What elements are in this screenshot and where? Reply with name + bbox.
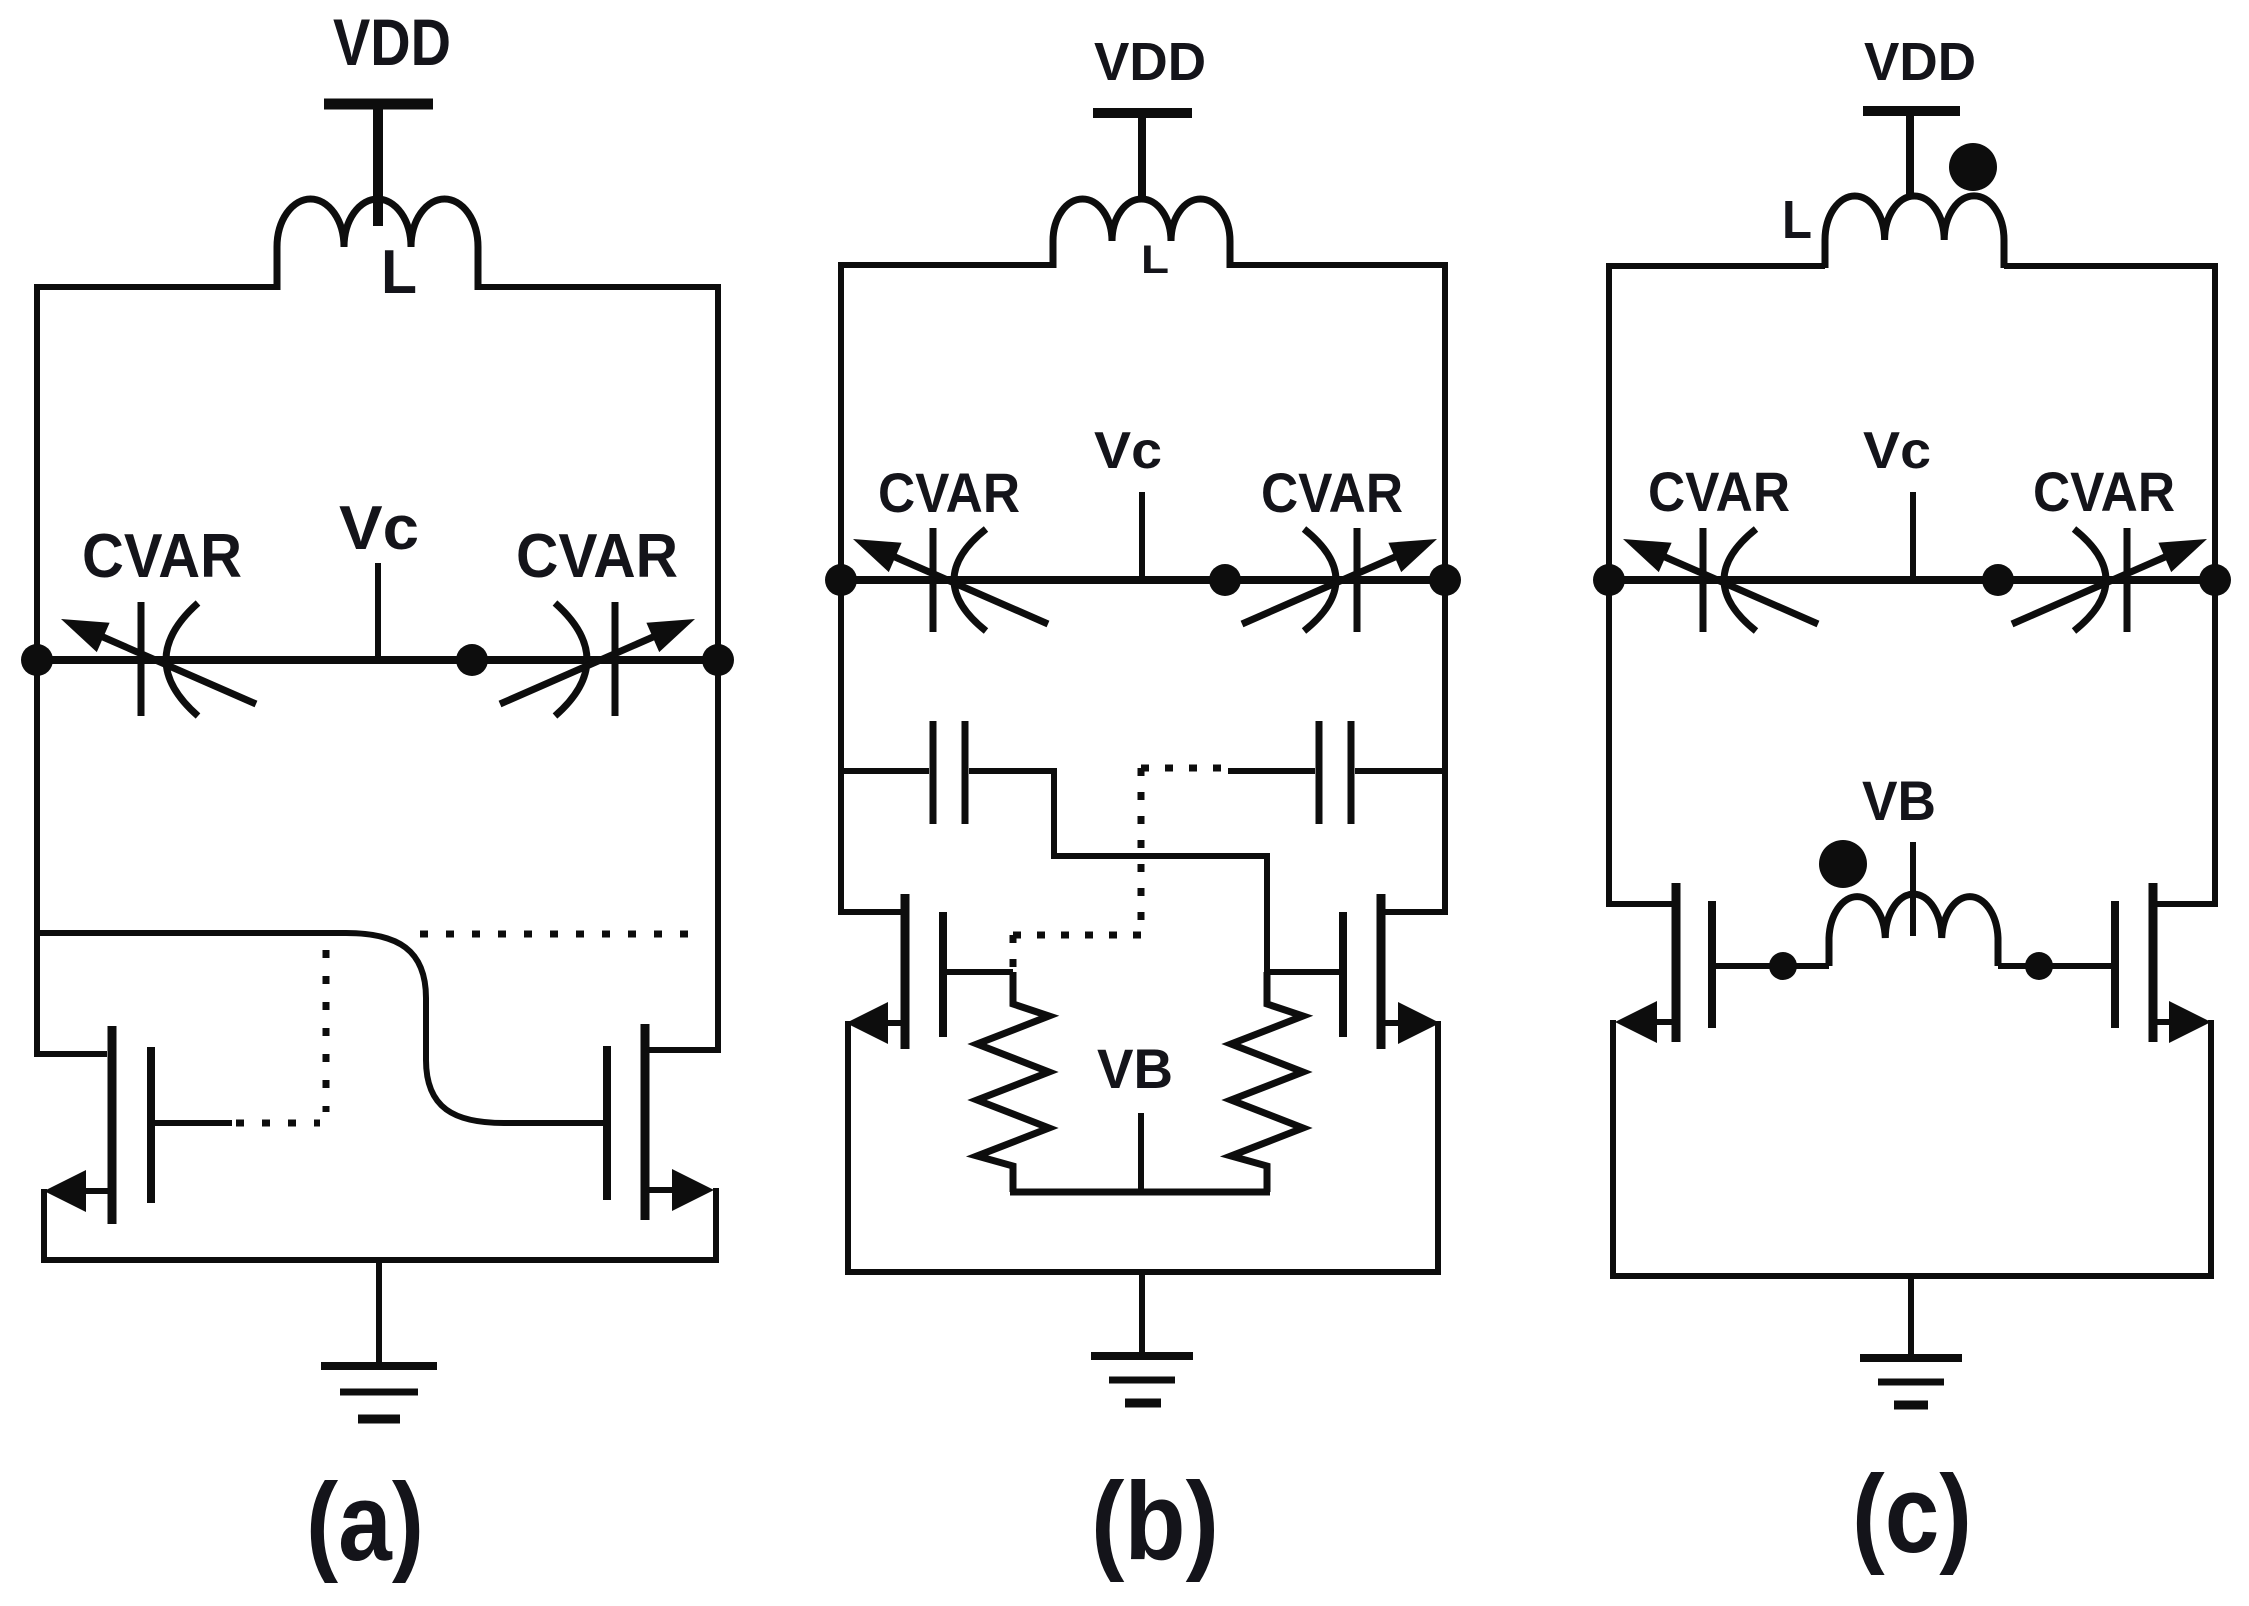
polarity dot primary (c) (1949, 143, 1997, 191)
wire cross-couple solid left-drain to right-gate (a) (37, 933, 603, 1123)
node dot left gate (c) (1769, 952, 1797, 980)
svg-text:CVAR: CVAR (2033, 460, 2175, 523)
svg-text:L: L (381, 238, 417, 307)
varactor CVAR left (b) (853, 528, 1048, 632)
wire left gate (c) (1716, 963, 1829, 969)
wire right edge + right drain (a) (478, 287, 718, 1050)
transistor M5 (c) (1615, 883, 1712, 1043)
svg-text:L: L (1782, 190, 1812, 250)
wire C1 to right gate (b) (969, 771, 1339, 972)
wire right gate (c) (1998, 963, 2111, 969)
node dot right (c) (2199, 564, 2231, 596)
wire VDD stem (b) (1138, 113, 1146, 199)
power VDD bar (c) (1863, 106, 1960, 116)
wire varactor bus (a) (37, 656, 718, 664)
varactor CVAR left (c) (1623, 528, 1818, 632)
inductor L (b) (1053, 199, 1230, 282)
transistor M3 (b) (846, 894, 1013, 1049)
svg-text:CVAR: CVAR (878, 461, 1020, 524)
svg-text:CVAR: CVAR (1648, 460, 1790, 523)
ground (b) (1091, 1272, 1193, 1403)
varactor CVAR right (c) (2012, 528, 2207, 632)
coupling capacitor C1 (b) (933, 721, 965, 824)
transistor M2 (a) (607, 1024, 714, 1220)
wire left edge + left drain (c) (1609, 266, 1825, 904)
svg-text:VB: VB (1862, 769, 1936, 832)
svg-text:VDD: VDD (1094, 32, 1206, 92)
wire Vc stem (b) (1139, 492, 1145, 580)
svg-text:Vc: Vc (1094, 422, 1162, 480)
wire cross-couple dotted right-drain to left-gate (a) (236, 934, 700, 1123)
wire right edge + right drain (b) (1230, 265, 1445, 912)
node dot right gate (c) (2025, 952, 2053, 980)
node dot right (b) (1429, 564, 1461, 596)
wire VDD stem (a) (373, 104, 383, 226)
wire C1 left (b) (841, 768, 929, 774)
node dot right (a) (702, 644, 734, 676)
wire VDD stem (c) (1906, 111, 1914, 198)
wire source rail (b) (848, 1021, 1438, 1272)
wire VB bar (b) (1010, 1189, 1270, 1196)
svg-text:(b): (b) (1091, 1460, 1219, 1583)
wire varactor bus (b) (841, 576, 1445, 584)
svg-text:Vc: Vc (1863, 422, 1931, 480)
inductor L (a) (277, 199, 478, 307)
wire varactor bus (c) (1609, 576, 2215, 584)
polarity dot secondary (c) (1819, 840, 1867, 888)
node dot mid (b) (1209, 564, 1241, 596)
node dot mid (c) (1982, 564, 2014, 596)
svg-text:(a): (a) (306, 1461, 424, 1584)
svg-text:VDD: VDD (1864, 32, 1976, 92)
node dot mid (a) (456, 644, 488, 676)
wire Vc stem (a) (375, 563, 381, 660)
coupling capacitor C2 (b) (1319, 721, 1351, 824)
svg-text:L: L (1141, 238, 1169, 282)
svg-text:VB: VB (1097, 1037, 1173, 1100)
wire cross-couple dotted C2 to left gate (b) (1013, 768, 1228, 972)
inductor L (c) (1782, 190, 2004, 268)
wire C2 left stub (b) (1228, 768, 1315, 774)
svg-text:(c): (c) (1852, 1453, 1972, 1576)
transistor M6 (c) (2115, 883, 2211, 1043)
node dot left (b) (825, 564, 857, 596)
power VDD bar (b) (1093, 108, 1192, 118)
resistor R2 (b) (1231, 972, 1303, 1192)
ground (a) (321, 1260, 437, 1419)
svg-text:CVAR: CVAR (516, 522, 678, 591)
transistor M1 (a) (44, 1026, 232, 1224)
wire Vc stem (c) (1910, 492, 1916, 580)
wire C2 right (b) (1355, 768, 1445, 774)
resistor R1 (b) (977, 972, 1049, 1192)
wire VB stem (b) (1138, 1113, 1144, 1192)
varactor CVAR right (b) (1242, 528, 1437, 632)
wire source rail (a) (44, 1188, 716, 1260)
wire left edge + left drain (b) (841, 265, 1053, 912)
svg-text:CVAR: CVAR (1261, 461, 1403, 524)
wire left edge + left drain (a) (37, 287, 277, 1054)
wire source rail (c) (1613, 1020, 2211, 1276)
node dot left (a) (21, 644, 53, 676)
node dot left (c) (1593, 564, 1625, 596)
transformer secondary coil (c) (1829, 894, 1998, 966)
svg-text:Vc: Vc (339, 494, 419, 563)
varactor CVAR left (a) (61, 602, 256, 716)
svg-text:VDD: VDD (333, 5, 451, 79)
varactor CVAR right (a) (500, 602, 695, 716)
wire VB stem (c) (1910, 842, 1916, 936)
ground (c) (1860, 1276, 1962, 1405)
svg-text:CVAR: CVAR (82, 522, 242, 591)
wire right edge + right drain (c) (2004, 266, 2215, 904)
transistor M4 (b) (1267, 894, 1440, 1049)
power VDD bar (a) (324, 99, 433, 110)
